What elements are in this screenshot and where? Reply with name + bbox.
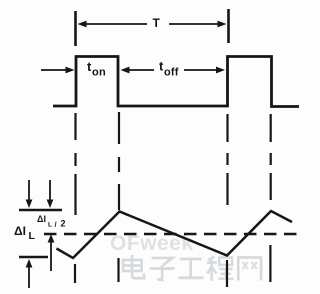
svg-text:off: off <box>164 67 179 79</box>
valley level dimension line <box>19 256 48 258</box>
wire inductor current triangle wave <box>57 211 293 258</box>
dI_L up arrow <box>28 265 30 288</box>
watermark char gong <box>178 259 203 278</box>
dashed node line x=119 <box>117 112 120 282</box>
svg-text:L: L <box>48 222 52 229</box>
dashed node line x=75.5 <box>74 113 77 283</box>
average current dashed line <box>44 233 300 235</box>
t_on right arrow <box>128 69 154 71</box>
svg-text:T: T <box>153 16 161 30</box>
T dimension right arrow <box>169 23 219 25</box>
dI_L/2 down arrow <box>49 180 51 202</box>
peak level dimension line <box>19 209 62 211</box>
svg-text:on: on <box>92 67 106 79</box>
dI_L down arrow <box>28 180 30 202</box>
t_off right arrow <box>184 69 218 71</box>
svg-text:L: L <box>29 230 36 242</box>
T dimension right tick <box>227 9 230 43</box>
dI_L/2 up arrow <box>50 240 52 271</box>
svg-text:ΔI: ΔI <box>37 214 46 224</box>
watermark char wang <box>238 258 261 281</box>
T dimension left arrow <box>85 23 147 25</box>
T dimension left tick <box>74 11 77 46</box>
svg-text:ΔI: ΔI <box>14 224 26 238</box>
dashed node line x=270.7 <box>269 114 272 282</box>
watermark char cheng <box>207 257 234 282</box>
wire square-wave gate drive <box>53 57 299 107</box>
watermark char zi <box>150 258 175 280</box>
watermark char dian <box>123 255 144 278</box>
dashed node line x=227.5 <box>226 114 229 287</box>
svg-text:2: 2 <box>61 219 66 229</box>
t_on left arrow <box>41 69 67 71</box>
